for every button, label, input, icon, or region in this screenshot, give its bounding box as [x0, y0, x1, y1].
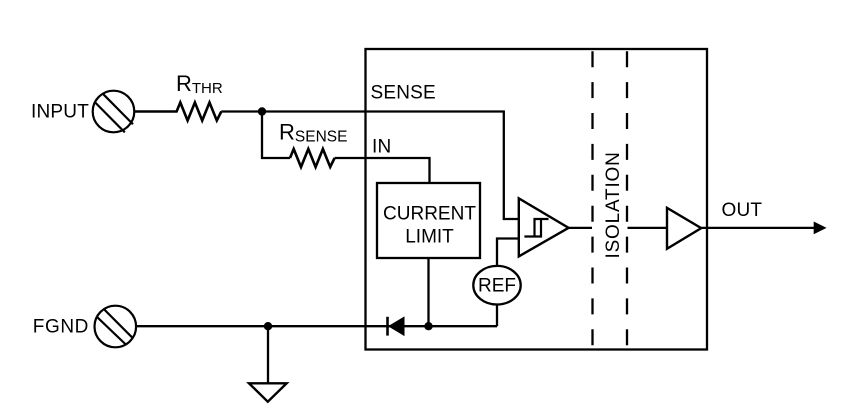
svg-text:REF: REF	[478, 276, 516, 297]
junction dot FGND/ground	[264, 322, 272, 330]
wire ground stub	[267, 326, 269, 383]
diode D1 (cathode bar)	[386, 317, 389, 336]
comparator U1 triangle	[519, 198, 569, 256]
svg-text:FGND: FGND	[33, 317, 89, 338]
hysteresis symbol	[524, 219, 548, 237]
wire comparator output to isolation	[569, 227, 592, 229]
wire IN net to CURRENT LIMIT	[335, 158, 430, 183]
svg-text:ISOLATION: ISOLATION	[603, 151, 624, 258]
svg-text:SENSE: SENSE	[371, 82, 436, 103]
svg-text:IN: IN	[372, 137, 391, 158]
svg-text:INPUT: INPUT	[31, 102, 89, 123]
wire isolation to buffer	[628, 227, 668, 229]
isolation barrier dashed line left	[591, 51, 593, 345]
wire REF to bottom rail	[496, 305, 498, 327]
terminal FGND	[95, 306, 137, 348]
isolation barrier dashed line right	[626, 51, 628, 345]
reference REF circle	[473, 266, 520, 305]
wire SENSE net	[221, 112, 518, 220]
block CURRENT LIMIT	[377, 183, 480, 258]
wire junction to R_SENSE	[262, 112, 290, 159]
wire OUT with arrow	[701, 227, 814, 229]
svg-text:CURRENT: CURRENT	[383, 203, 476, 224]
junction dot diode/REF/current-limit	[424, 322, 432, 330]
svg-text:LIMIT: LIMIT	[405, 227, 454, 248]
buffer U2 triangle	[667, 208, 701, 249]
resistor R_THR	[134, 103, 221, 121]
terminal INPUT	[93, 91, 135, 133]
resistor R_SENSE	[290, 149, 335, 167]
diode D1 (anode triangle)	[389, 317, 404, 335]
svg-text:OUT: OUT	[722, 200, 763, 221]
wire FGND bottom rail	[135, 325, 497, 327]
junction dot input node	[258, 107, 266, 115]
IC outline box	[366, 49, 708, 350]
wire CURRENT LIMIT to bottom rail	[427, 258, 429, 326]
wire REF to comparator - input	[497, 239, 518, 266]
ground symbol	[249, 383, 287, 401]
